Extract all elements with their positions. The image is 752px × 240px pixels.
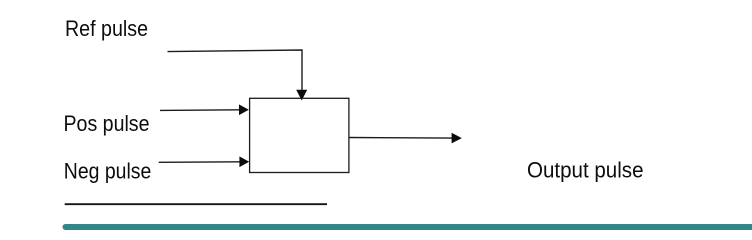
- wire output arrow from box right: [349, 137, 452, 140]
- wire neg-pulse arrow to box left: [159, 161, 240, 164]
- svg-text:Ref pulse: Ref pulse: [65, 16, 148, 41]
- arrowhead pos-pulse: [239, 104, 249, 115]
- horizontal rule under Neg pulse: [65, 203, 327, 205]
- svg-text:Neg pulse: Neg pulse: [64, 159, 152, 184]
- svg-text:Pos pulse: Pos pulse: [64, 111, 150, 136]
- wire pos-pulse arrow to box left: [160, 109, 240, 112]
- arrowhead down into box top: [296, 90, 307, 101]
- arrowhead output: [452, 133, 462, 144]
- block box: [250, 98, 349, 172]
- wire ref-pulse elbow (horizontal then vertical into box top): [168, 50, 303, 91]
- svg-text:Output pulse: Output pulse: [527, 158, 644, 183]
- arrowhead neg-pulse: [239, 156, 249, 167]
- bottom teal bar: [63, 224, 752, 230]
